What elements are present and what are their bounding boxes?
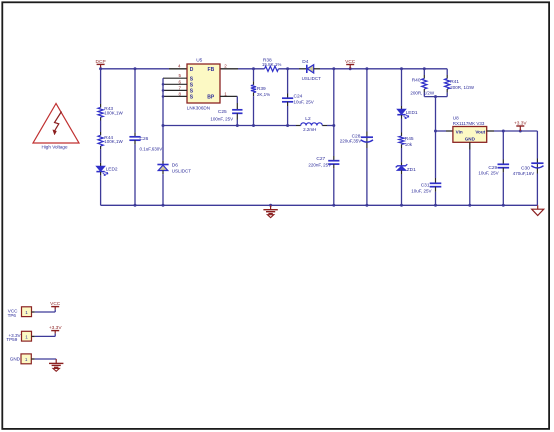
power symbol +3.3V at TP59 <box>49 325 62 333</box>
wire S pin 8 <box>163 95 187 97</box>
wire R43 to R44 <box>100 117 102 135</box>
svg-text:0.1uF,630V: 0.1uF,630V <box>140 146 163 151</box>
svg-text:1: 1 <box>25 357 28 362</box>
wire Vin <box>436 130 453 132</box>
zener diode ZD1 <box>396 164 416 173</box>
wire VCC node to R40/R41 <box>365 67 447 70</box>
wire C28 bottom <box>366 143 368 206</box>
svg-text:220nF, 25V: 220nF, 25V <box>308 163 331 168</box>
wire S pin 7 <box>163 89 187 91</box>
svg-text:VCC: VCC <box>345 59 356 65</box>
node DCP junction <box>99 67 136 70</box>
wire U8 GND pin to ground rail <box>469 142 471 205</box>
node FB divider junction <box>252 67 255 70</box>
pin number 4 <box>178 64 181 69</box>
svg-text:1: 1 <box>25 334 28 339</box>
svg-text:ZD1: ZD1 <box>407 167 416 173</box>
op-amp U5 LNK306DN body <box>187 57 220 110</box>
wire LED1 to R45 <box>401 115 403 136</box>
LED LED2 <box>96 166 118 175</box>
svg-text:TP59: TP59 <box>6 337 17 342</box>
wire source bus <box>162 78 165 125</box>
wire R40 R41 join <box>424 95 447 98</box>
svg-text:220uF,35V: 220uF,35V <box>340 139 362 144</box>
wire C27 bottom <box>333 164 335 205</box>
capacitor C29 <box>478 164 509 175</box>
svg-text:LNK306DN: LNK306DN <box>187 105 210 110</box>
svg-text:200R, 1/2W: 200R, 1/2W <box>410 91 435 96</box>
wire ZD1 to ground rail <box>401 170 403 205</box>
wire FB pin to R38 <box>220 68 265 70</box>
wire C29 bottom <box>502 168 504 206</box>
power symbol VCC at TP6 <box>50 301 61 309</box>
svg-text:FB: FB <box>208 67 215 73</box>
wire C25 to switch node <box>236 113 239 127</box>
svg-text:+3.3V: +3.3V <box>49 325 62 331</box>
svg-text:100nF, 25V: 100nF, 25V <box>210 117 233 122</box>
ground symbol at GND test point <box>49 359 63 371</box>
svg-text:D4: D4 <box>302 59 308 65</box>
svg-text:1: 1 <box>25 310 28 315</box>
ground symbol main <box>263 205 277 217</box>
wire Vout rail <box>487 130 538 133</box>
resistor R39 <box>251 69 270 127</box>
wire LED1 branch top <box>401 69 403 110</box>
svg-text:TP6: TP6 <box>8 313 17 318</box>
resistor R44 <box>98 135 124 146</box>
wire source bus to D6 <box>162 124 165 165</box>
wire C30 bottom <box>536 168 538 205</box>
wire C28 top <box>366 69 368 137</box>
resistor R43 <box>98 106 124 117</box>
svg-text:Vout: Vout <box>475 129 485 134</box>
svg-text:BP: BP <box>207 95 215 101</box>
svg-text:C25: C25 <box>218 109 227 115</box>
svg-text:High Voltage: High Voltage <box>41 144 67 149</box>
capacitor C26 <box>129 136 162 151</box>
wire C26 branch top <box>134 69 136 137</box>
capacitor C31 <box>411 182 441 193</box>
svg-text:470uF,16V: 470uF,16V <box>513 171 535 176</box>
high-voltage warning triangle <box>33 104 79 150</box>
svg-text:10k: 10k <box>405 142 413 147</box>
svg-text:Vin: Vin <box>456 129 463 134</box>
capacitor C25 <box>210 109 242 121</box>
pin number 6 <box>178 79 181 84</box>
wire switch node <box>163 125 296 127</box>
wire DCP rail down <box>100 69 102 108</box>
power symbol VCC <box>345 59 356 69</box>
wire C26 bottom <box>134 140 136 205</box>
svg-text:15.8K,1%: 15.8K,1% <box>262 62 282 67</box>
wire R38 to D4 <box>279 67 307 70</box>
pin number 8 <box>178 91 181 96</box>
wire TP59 to +3.3V <box>32 333 56 336</box>
wire LED2 to ground rail <box>100 172 102 205</box>
resistor R45 <box>399 136 414 147</box>
resistor R41 <box>445 69 475 97</box>
pin number 1 <box>224 91 227 96</box>
svg-text:DCP: DCP <box>96 59 106 65</box>
svg-text:USLIDCT: USLIDCT <box>172 169 192 174</box>
svg-text:100K,1W: 100K,1W <box>104 139 123 144</box>
svg-text:LED1: LED1 <box>406 110 418 116</box>
power symbol DCP <box>96 59 106 69</box>
op-amp U8 RX1117MK body <box>453 115 487 142</box>
wire R45 to ZD1 <box>401 144 403 165</box>
resistor R38 <box>262 57 282 71</box>
pin number 7 <box>178 85 181 90</box>
svg-text:2.2mH: 2.2mH <box>303 127 316 132</box>
wire S pin 6 <box>163 83 187 85</box>
test point TP59 +3.3V <box>6 331 31 342</box>
power symbol +3.3V top right <box>514 121 527 132</box>
wire R44 to LED2 <box>100 146 102 166</box>
wire TP6 to VCC <box>32 309 56 312</box>
power-return arrow bottom right <box>532 205 544 215</box>
capacitor C27 <box>308 156 339 167</box>
svg-text:R40: R40 <box>412 78 421 84</box>
svg-text:L2: L2 <box>305 116 311 122</box>
svg-text:C26: C26 <box>140 136 149 142</box>
LED LED1 <box>397 109 418 118</box>
svg-text:GND: GND <box>465 137 476 142</box>
svg-text:USLIDCT: USLIDCT <box>302 76 322 81</box>
svg-text:RX1117MK V33: RX1117MK V33 <box>453 121 485 126</box>
wire C30 top <box>536 131 538 163</box>
svg-text:10uF, 25V: 10uF, 25V <box>411 188 431 193</box>
wire ground rail <box>101 204 538 207</box>
capacitor C24 <box>282 69 314 127</box>
capacitor C28 <box>340 133 373 143</box>
wire D6 to ground rail <box>162 171 164 206</box>
svg-text:VCC: VCC <box>50 301 61 307</box>
wire C29 top <box>502 131 504 164</box>
svg-text:C27: C27 <box>316 156 325 162</box>
wire C31 top <box>435 131 437 183</box>
svg-text:10uF, 25V: 10uF, 25V <box>294 99 314 104</box>
pin number 2 <box>224 64 227 69</box>
pin number 5 <box>178 73 181 78</box>
wire output node vertical <box>333 69 335 161</box>
wire D4 to VCC node <box>314 67 367 70</box>
svg-text:LED2: LED2 <box>106 166 118 172</box>
wire BP pin to C25 <box>220 96 237 109</box>
wire DCP rail to U5 D pin <box>101 68 187 70</box>
svg-text:100K,1W: 100K,1W <box>104 110 123 115</box>
svg-text:GND: GND <box>10 357 21 362</box>
diode D4 USLIDCT <box>302 59 322 81</box>
capacitor C30 <box>513 163 544 176</box>
resistor R40 <box>410 69 435 97</box>
test point TP6 VCC <box>8 307 32 318</box>
svg-text:U8: U8 <box>453 115 459 120</box>
svg-text:10uF, 25V: 10uF, 25V <box>478 170 498 175</box>
svg-text:D: D <box>190 67 194 73</box>
wire GND test point <box>31 358 56 360</box>
diode D6 USLIDCT <box>157 163 191 174</box>
svg-text:U5: U5 <box>196 57 202 63</box>
test point GND <box>10 354 32 364</box>
inductor L2 <box>296 116 327 132</box>
wire L2 to output node <box>327 124 335 127</box>
svg-text:2K,1%: 2K,1% <box>257 92 270 97</box>
wire C31 bottom <box>435 187 437 206</box>
svg-text:200R, 1/2W: 200R, 1/2W <box>450 85 475 90</box>
wire S pin 5 <box>163 77 187 79</box>
svg-text:+3.3V: +3.3V <box>514 121 527 127</box>
wire join to Vin node <box>434 97 437 133</box>
